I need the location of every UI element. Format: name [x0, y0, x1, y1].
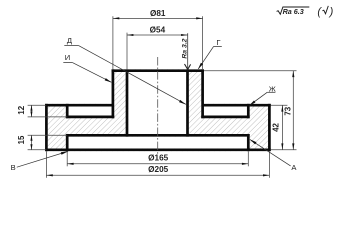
svg-text:15: 15 — [17, 135, 26, 144]
flange top face left — [45, 104, 113, 107]
svg-text:Ø81: Ø81 — [150, 9, 166, 18]
extension lines Ø81 — [112, 16, 114, 69]
boss top edge (Ø81 face) — [112, 69, 204, 72]
leader А — [250, 140, 291, 166]
bottom recess void (Ø165) — [69, 137, 247, 149]
svg-text:Ra 3.2: Ra 3.2 — [181, 38, 188, 58]
extension lines 12 dim — [28, 104, 47, 106]
dimension line Ø165 — [67, 163, 248, 165]
svg-text:И: И — [65, 53, 70, 62]
recess right wall — [247, 134, 250, 151]
flange right edge (Ø205) — [268, 104, 271, 151]
text 73 (rotated) — [284, 106, 293, 115]
leader В — [17, 151, 68, 167]
boss left outer wall — [112, 69, 115, 118]
extension line Ø54 left — [126, 33, 128, 69]
dimension line Ø54 — [127, 34, 188, 36]
leader Д (shelf + line) — [64, 45, 78, 47]
right groove bottom — [201, 116, 249, 119]
left groove void — [69, 107, 112, 116]
general roughness radical √ with bar — [277, 7, 310, 14]
svg-text:Ra 6.3: Ra 6.3 — [283, 7, 304, 16]
recess top edge (Ø165) — [66, 134, 250, 137]
extension lines Ø205 — [45, 151, 47, 178]
dimension line 42 — [281, 105, 283, 150]
dimension line 12 — [31, 105, 33, 117]
leader Г — [214, 45, 222, 47]
boss right outer wall — [201, 69, 204, 118]
svg-text:73: 73 — [284, 106, 293, 115]
extension line 42/73 bottom — [271, 149, 297, 151]
svg-text:В: В — [11, 163, 16, 172]
bore void (Ø54) — [128, 72, 186, 134]
svg-text:Ж: Ж — [269, 84, 276, 93]
extension line 73 top — [204, 70, 297, 72]
svg-text:Ø165: Ø165 — [148, 154, 168, 163]
right groove void — [204, 107, 247, 116]
svg-text:Ø54: Ø54 — [150, 25, 166, 34]
leader И — [63, 61, 72, 63]
dimension line 15 — [31, 135, 33, 150]
text 15 (rotated) — [17, 135, 26, 144]
text Ra 3.2 (rotated, on bore extension) — [181, 38, 188, 58]
text 12 (rotated) — [17, 105, 26, 114]
svg-text:Г: Г — [216, 38, 220, 47]
roughness symbol leg / Ø54 right extension — [187, 33, 189, 69]
small radical inside parentheses — [322, 6, 328, 14]
centerline (axis) — [157, 57, 159, 154]
extension line 42 top — [271, 104, 288, 106]
dimension line Ø205 — [46, 174, 269, 176]
recess left wall — [66, 134, 69, 151]
dimension line 73 — [292, 71, 294, 150]
flange left edge (Ø205) — [45, 104, 48, 151]
bore left wall (Ø54) — [126, 69, 129, 136]
left groove wall — [66, 104, 69, 118]
svg-text:12: 12 — [17, 105, 26, 114]
bore right wall (Ø54) — [186, 69, 189, 136]
text 42 (rotated) — [272, 123, 281, 132]
hatched section: boss body — [113, 69, 203, 104]
dimension line Ø81 — [113, 17, 203, 19]
left groove bottom — [66, 116, 114, 119]
right groove wall — [247, 104, 250, 118]
bottom face — [45, 148, 271, 151]
extension lines Ø165 — [66, 151, 68, 166]
svg-text:42: 42 — [272, 123, 281, 132]
hatched section: flange body — [46, 104, 269, 151]
extension lines 15 dim — [28, 134, 68, 136]
svg-text:Ø205: Ø205 — [148, 165, 168, 174]
svg-text:Д: Д — [67, 36, 72, 45]
leader Ж — [267, 91, 275, 93]
flange top face right — [203, 104, 271, 107]
roughness check mark Ra 3.2 — [185, 64, 191, 69]
